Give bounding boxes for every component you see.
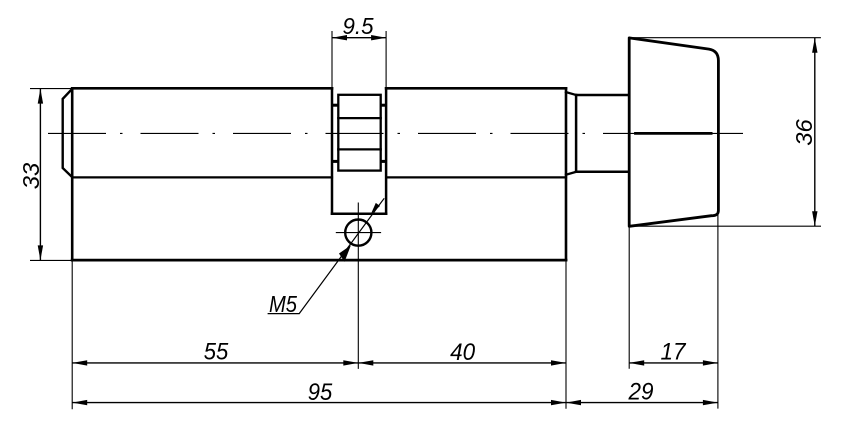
dim 17 line — [629, 362, 718, 364]
svg-text:36: 36 — [791, 118, 817, 145]
M5 hole crosshair vertical / extension line 55-40 — [357, 203, 359, 369]
thumbturn knob outline — [629, 38, 718, 226]
bottom extension lines — [71, 260, 73, 410]
cam slot edges — [332, 88, 386, 213]
center line (dash-dot axis) — [48, 132, 743, 134]
dim 33 line — [39, 89, 41, 261]
left chamfered end cap — [63, 89, 72, 177]
M5 hole crosshair horizontal — [336, 232, 381, 234]
cam retaining nubs — [333, 104, 386, 163]
svg-text:95: 95 — [308, 379, 333, 406]
dim 9.5 line — [332, 37, 386, 39]
barrel bottom tangent line — [72, 176, 566, 178]
dim 55 line — [72, 362, 358, 364]
dim 36 line — [814, 38, 816, 227]
knob mid parting line — [634, 132, 712, 135]
svg-text:29: 29 — [628, 379, 654, 406]
svg-text:40: 40 — [450, 339, 476, 366]
collar chamfer to shaft — [566, 92, 576, 175]
M5 leader line — [268, 198, 385, 313]
svg-text:9.5: 9.5 — [343, 13, 375, 39]
svg-text:33: 33 — [18, 163, 44, 190]
dim 33 extension lines — [30, 88, 71, 90]
svg-text:M5: M5 — [269, 291, 298, 317]
dim 40 line — [358, 362, 566, 364]
dim 95 line — [72, 402, 566, 404]
svg-text:55: 55 — [204, 339, 229, 366]
dim 9.5 extension lines — [331, 31, 333, 88]
dim 29 line — [566, 402, 718, 404]
dim 36 extension lines — [631, 37, 821, 39]
cylinder body outline — [72, 88, 566, 260]
svg-text:17: 17 — [661, 339, 688, 366]
M5 leader arrowhead at circle — [339, 245, 351, 262]
M5 leader arrowhead at slot bottom — [371, 203, 380, 214]
cam block with bands — [338, 95, 380, 171]
M5 hole circle — [345, 220, 371, 246]
shaft — [576, 95, 629, 172]
